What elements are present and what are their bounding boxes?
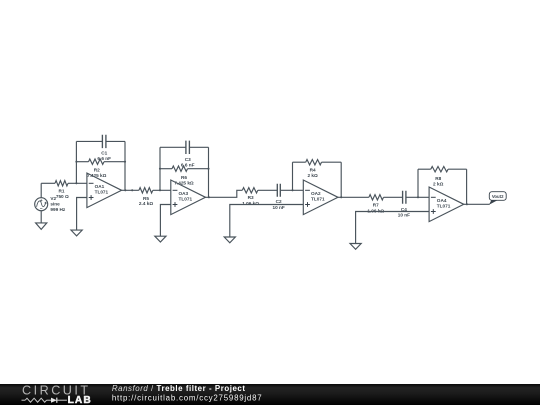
svg-text:OA3: OA3 bbox=[179, 191, 189, 196]
resistor R6 bbox=[172, 166, 188, 171]
feedback left vertical stage4 bbox=[417, 169, 419, 197]
wire OA2 noninverting input bbox=[230, 205, 303, 238]
node dot OA4 output junction bbox=[466, 203, 468, 205]
feedback right vertical stage2 bbox=[208, 147, 210, 197]
svg-text:999 Hz: 999 Hz bbox=[50, 207, 66, 212]
feedback right vertical stage3 bbox=[340, 162, 342, 197]
wire R6 to right vertical bbox=[188, 168, 209, 170]
node dot stage1 inverting input bbox=[75, 182, 77, 184]
wire to resistor R8 bbox=[418, 168, 431, 170]
capacitor C1 bbox=[102, 135, 106, 148]
svg-text:OA2: OA2 bbox=[311, 191, 321, 196]
wire R4 to right vertical bbox=[322, 161, 342, 163]
node dot stage3 inverting input bbox=[291, 189, 293, 191]
feedback left vertical stage1 bbox=[75, 141, 77, 183]
svg-text:OA4: OA4 bbox=[437, 198, 447, 203]
R3 label 1.06 kohm bbox=[242, 195, 259, 206]
svg-text:10 nF: 10 nF bbox=[272, 205, 284, 210]
C2 label 10 nF bbox=[272, 199, 284, 210]
wire OA2 output to R7 bbox=[338, 196, 369, 198]
resistor R7 bbox=[369, 195, 384, 200]
wire R2 to right vertical bbox=[104, 161, 125, 163]
svg-text:C2: C2 bbox=[276, 199, 282, 204]
op-amp OA2 TL071 bbox=[303, 180, 338, 215]
node flag Vout2 bbox=[489, 192, 506, 205]
wire OA1 output to R5 bbox=[122, 189, 139, 191]
svg-text:R1: R1 bbox=[59, 189, 65, 194]
R1 label 750 ohm bbox=[56, 189, 69, 199]
op-amp OA1 TL071 bbox=[87, 173, 122, 208]
wire C1 to right vertical bbox=[106, 140, 125, 142]
svg-text:750 Ω: 750 Ω bbox=[56, 194, 69, 199]
logo diode symbol bbox=[47, 398, 67, 403]
svg-text:R8: R8 bbox=[435, 176, 441, 181]
wire OA3 output with jog up to R3 bbox=[206, 190, 243, 197]
ground (OA3 +) bbox=[155, 236, 166, 242]
wire V2 top to input line bbox=[40, 183, 42, 197]
svg-text:1.06 kΩ: 1.06 kΩ bbox=[242, 201, 259, 206]
wire C4 to OA4 inverting input bbox=[406, 196, 429, 198]
node dot stage4 inverting input bbox=[417, 196, 419, 198]
svg-text:OA1: OA1 bbox=[95, 184, 105, 189]
R8 label 2 kohm bbox=[433, 176, 444, 186]
svg-text:Vout2: Vout2 bbox=[492, 194, 504, 199]
svg-text:R7: R7 bbox=[373, 203, 379, 208]
wire top line to C3 bbox=[160, 146, 186, 148]
svg-text:TL071: TL071 bbox=[179, 197, 193, 202]
feedback left vertical stage2 bbox=[159, 147, 161, 190]
svg-text:2.4 kΩ: 2.4 kΩ bbox=[139, 201, 153, 206]
capacitor C3 bbox=[186, 141, 190, 154]
voltage source V2 bbox=[35, 198, 48, 211]
ground (V2) bbox=[36, 223, 47, 230]
op-amp OA3 TL071 bbox=[171, 180, 206, 215]
footer title line bbox=[112, 384, 246, 393]
svg-text:TL071: TL071 bbox=[311, 197, 325, 202]
node dot R2 right bbox=[124, 161, 126, 163]
svg-text:LAB: LAB bbox=[68, 395, 92, 405]
wire V2 bottom to ground bbox=[40, 211, 42, 223]
svg-text:http://circuitlab.com/ccy27598: http://circuitlab.com/ccy275989jd87 bbox=[112, 393, 263, 402]
wire top line to C1 bbox=[76, 140, 102, 142]
wire to resistor R6 bbox=[160, 168, 172, 170]
node dot R6 right bbox=[207, 168, 209, 170]
resistor R5 bbox=[139, 188, 153, 193]
svg-text:R6: R6 bbox=[181, 175, 187, 180]
svg-text:10 nF: 10 nF bbox=[398, 213, 410, 218]
feedback right vertical stage4 bbox=[466, 169, 468, 204]
svg-text:C3: C3 bbox=[185, 157, 191, 162]
footer url line bbox=[112, 393, 263, 402]
svg-text:TL071: TL071 bbox=[437, 204, 451, 209]
wire OA1 noninverting input bbox=[77, 198, 87, 231]
resistor R4 bbox=[306, 160, 322, 165]
wire input line to R1 bbox=[41, 182, 55, 184]
wire OA4 output to Vout2 bbox=[464, 203, 490, 205]
ground (OA2 +) bbox=[224, 237, 235, 243]
wire to resistor R4 bbox=[293, 161, 306, 163]
logo LAB text bbox=[68, 395, 92, 405]
ground (OA4 +) bbox=[350, 244, 361, 250]
wire OA4 noninverting input bbox=[356, 212, 430, 244]
wire C3 to right vertical bbox=[189, 146, 208, 148]
node dot OA1 output pin bbox=[131, 189, 133, 191]
svg-text:2 kΩ: 2 kΩ bbox=[307, 173, 318, 178]
logo CIRCUIT text bbox=[22, 383, 91, 397]
feedback right vertical stage1 bbox=[124, 141, 126, 190]
R7 label 1.06 kohm bbox=[367, 203, 384, 214]
feedback left vertical stage3 bbox=[292, 162, 294, 190]
svg-text:2 kΩ: 2 kΩ bbox=[433, 181, 444, 186]
svg-text:R3: R3 bbox=[248, 195, 254, 200]
wire C2 to OA2 inverting input bbox=[280, 189, 303, 191]
node dot R2 left bbox=[75, 161, 77, 163]
resistor R3 bbox=[242, 188, 257, 193]
resistor R1 bbox=[55, 181, 68, 186]
wire to resistor R2 bbox=[76, 161, 88, 163]
wire R3 to C2 bbox=[258, 189, 278, 191]
svg-text:C1: C1 bbox=[101, 150, 107, 155]
node dot OA1 feedback junction bbox=[124, 189, 126, 191]
capacitor C4 bbox=[403, 191, 406, 204]
R4 label 2 kohm bbox=[307, 168, 318, 179]
ground (OA1 +) bbox=[71, 230, 82, 236]
C4 label 10 nF bbox=[398, 207, 410, 218]
capacitor C2 bbox=[277, 184, 280, 197]
svg-text:Ransford / Treble filter - Pro: Ransford / Treble filter - Project bbox=[112, 384, 246, 393]
resistor R2 bbox=[89, 159, 105, 164]
resistor R8 bbox=[431, 167, 448, 172]
node dot stage2 inverting input bbox=[159, 189, 161, 191]
svg-text:1.06 kΩ: 1.06 kΩ bbox=[367, 208, 384, 213]
R5 label 2.4 kohm bbox=[139, 196, 153, 206]
op-amp OA4 TL071 bbox=[429, 187, 464, 222]
footer bar bbox=[0, 384, 540, 405]
node dot OA3 output pin bbox=[208, 196, 210, 198]
logo resistor squiggle bbox=[22, 398, 47, 402]
node dot R6 left bbox=[159, 168, 161, 170]
V2 label bbox=[50, 196, 66, 212]
wire R8 to right vertical bbox=[448, 168, 467, 170]
R6 label 7.425 kohm bbox=[174, 175, 194, 186]
svg-text:TL071: TL071 bbox=[95, 190, 109, 195]
svg-text:R4: R4 bbox=[310, 168, 316, 173]
wire OA3 noninverting input bbox=[160, 205, 170, 237]
wire R7 to C4 bbox=[384, 196, 403, 198]
svg-text:R2: R2 bbox=[94, 168, 100, 173]
C1 label 6.6 nF bbox=[97, 150, 111, 161]
C3 label 6.6 nF bbox=[181, 157, 195, 167]
R2 label 7.425 kohm bbox=[87, 168, 107, 179]
wire R5 to OA3 inverting input bbox=[153, 189, 171, 191]
node dot OA2 output junction bbox=[340, 196, 342, 198]
wire R1 to OA1 inverting input bbox=[68, 182, 87, 184]
